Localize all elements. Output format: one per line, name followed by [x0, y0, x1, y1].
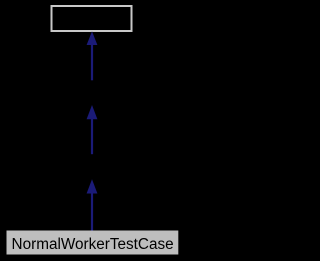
- NormalWorkerTestCase node box: [7, 231, 179, 255]
- inheritance arrow 2 (middle): [87, 105, 98, 154]
- inheritance arrow 1 (to base class box): [87, 31, 98, 80]
- inheritance arrow 3 (from NormalWorkerTestCase): [87, 179, 98, 230]
- svg-text:NormalWorkerTestCase: NormalWorkerTestCase: [12, 236, 174, 253]
- base class box (empty, top): [52, 6, 132, 31]
